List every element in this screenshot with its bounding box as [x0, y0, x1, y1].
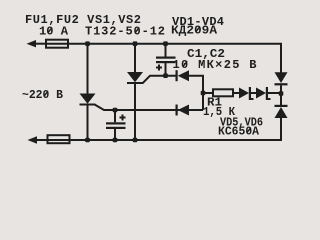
node bottom rail junction C2 [113, 138, 118, 143]
wire VS1 cathode [87, 105, 89, 140]
wire C1 top [165, 44, 167, 57]
svg-text:~220 В: ~220 В [22, 88, 63, 102]
fuse FU1 [46, 40, 68, 48]
node gate VS2 / C1 junction [163, 73, 168, 78]
zener diode VD6 [256, 88, 266, 99]
wire VS1 anode [87, 44, 89, 94]
wire VS2 anode [134, 44, 136, 73]
diode VD3 (points down) [275, 72, 288, 83]
C1 plus sign [156, 67, 162, 69]
node top rail junction VS1 [85, 41, 90, 46]
wire C2 top [114, 110, 116, 122]
bottom rail left arrow [28, 136, 38, 143]
node bottom rail junction VS1 [85, 138, 90, 143]
wire right column bottom [280, 118, 281, 141]
wire top rail [33, 43, 46, 45]
capacitor C1 [156, 57, 176, 59]
diode VD1 (points left, on gate wire y=75.7) [176, 70, 178, 81]
node right column junction [279, 91, 284, 96]
diode VD4 (points up) [275, 105, 288, 107]
thyristor VS2 [127, 72, 143, 82]
zener diode VD5 [239, 88, 249, 99]
wire right column top [280, 44, 281, 73]
slashed zeros overlay [44, 27, 251, 134]
resistor R1 [203, 92, 213, 94]
wire VD3 to node [280, 85, 282, 93]
capacitor C2 [106, 122, 126, 124]
diode VD2 (points left, on gate wire y=110) [176, 105, 178, 116]
top rail left arrow [27, 40, 37, 47]
svg-text:КД209А: КД209А [171, 24, 218, 38]
wire C2 bottom [114, 129, 116, 140]
node R1 left junction [201, 91, 206, 96]
svg-text:10 А: 10 А [39, 25, 69, 39]
wire VS1 gate [95, 105, 203, 110]
node bottom rail junction VS2 [133, 138, 138, 143]
wire C1 bottom [165, 63, 167, 76]
svg-text:Т132-50-12: Т132-50-12 [85, 25, 165, 39]
svg-text:КС650А: КС650А [218, 125, 260, 139]
wire VD1 anode to corner [189, 76, 203, 110]
thyristor VS1 [80, 94, 96, 104]
node top rail junction VS2 [133, 41, 138, 46]
wire VS2 cathode [134, 84, 136, 141]
node top rail junction C1 [163, 41, 168, 46]
svg-text:10 МК×25 В: 10 МК×25 В [173, 58, 257, 72]
wire node to VD4 [280, 94, 282, 106]
wire bottom rail [34, 139, 48, 141]
C2 plus sign [120, 117, 126, 119]
fuse FU2 [48, 135, 70, 143]
wire VS2 gate [143, 76, 177, 84]
node C2 junction on gate wire [113, 108, 118, 113]
